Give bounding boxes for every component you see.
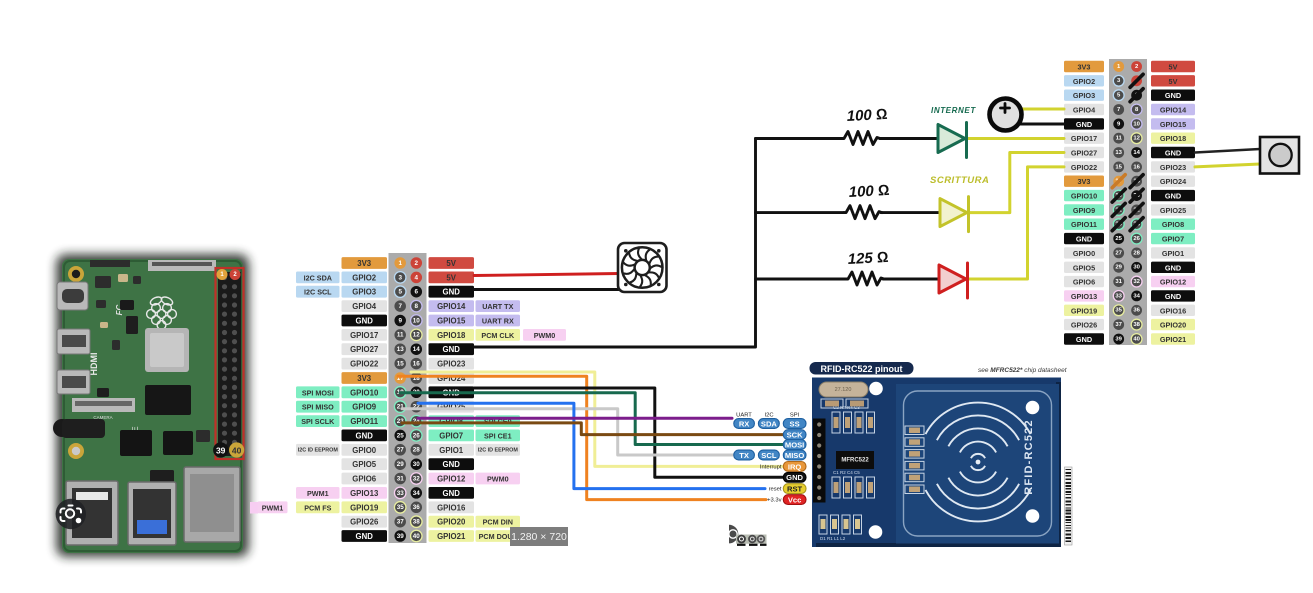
svg-text:GPIO22: GPIO22: [1071, 163, 1097, 172]
svg-text:MOSI: MOSI: [785, 440, 804, 449]
svg-text:UART: UART: [736, 413, 752, 419]
svg-text:GPIO7: GPIO7: [1162, 235, 1184, 244]
svg-text:GPIO17: GPIO17: [1071, 134, 1097, 143]
svg-text:9: 9: [398, 317, 402, 324]
svg-text:GPIO1: GPIO1: [439, 446, 463, 455]
svg-text:GND: GND: [1076, 120, 1092, 129]
svg-text:5V: 5V: [446, 259, 456, 268]
wire R3 to LED D3: [883, 278, 941, 281]
svg-text:10: 10: [1133, 121, 1140, 127]
svg-text:32: 32: [1133, 279, 1140, 285]
svg-text:37: 37: [397, 519, 405, 526]
svg-text:+3.3v: +3.3v: [767, 498, 781, 504]
svg-text:2: 2: [415, 260, 419, 267]
svg-text:14: 14: [413, 346, 421, 353]
wire orange 3V3 (pin17) to RFID Vcc: [398, 376, 766, 499]
wire purple GPIO8 CE0 to RFID SS: [418, 417, 732, 420]
wire black GND (pin20) to RFID GND: [474, 388, 784, 477]
svg-text:MFRC522: MFRC522: [841, 458, 869, 464]
svg-text:GPIO16: GPIO16: [437, 503, 466, 512]
svg-text:GPIO18: GPIO18: [1160, 134, 1186, 143]
svg-text:GPIO23: GPIO23: [437, 360, 466, 369]
LED D1 green (internet): [938, 123, 967, 158]
svg-text:28: 28: [413, 447, 421, 454]
svg-text:30: 30: [1133, 265, 1140, 271]
svg-text:SCL: SCL: [761, 451, 777, 460]
wire pale-yellow GPIO24 (pin18) to RFID IRQ: [411, 372, 786, 466]
svg-text:29: 29: [1115, 265, 1122, 271]
svg-text:GPIO15: GPIO15: [437, 317, 466, 326]
svg-text:GPIO3: GPIO3: [352, 288, 376, 297]
svg-text:GND: GND: [1165, 91, 1181, 100]
svg-text:PCM CLK: PCM CLK: [481, 331, 515, 340]
svg-text:11: 11: [1116, 136, 1123, 142]
svg-text:GND: GND: [443, 288, 461, 297]
svg-text:Vcc: Vcc: [788, 496, 802, 505]
svg-text:31: 31: [397, 475, 405, 482]
license watermark icons: [729, 525, 767, 546]
svg-text:GPIO24: GPIO24: [1160, 177, 1187, 186]
svg-text:125 Ω: 125 Ω: [847, 249, 889, 268]
svg-text:5: 5: [398, 289, 402, 296]
svg-text:15: 15: [1115, 164, 1122, 170]
svg-text:GPIO10: GPIO10: [350, 388, 379, 397]
svg-text:MISO: MISO: [785, 451, 805, 460]
wire yellow LED D3 to GPIO22: [968, 167, 1064, 279]
svg-text:GPIO2: GPIO2: [352, 273, 376, 282]
wire branch to resistor R3: [756, 278, 847, 281]
svg-text:GPIO9: GPIO9: [1073, 206, 1095, 215]
svg-text:16: 16: [413, 361, 421, 368]
svg-text:GPIO20: GPIO20: [1160, 321, 1186, 330]
svg-text:6: 6: [415, 289, 419, 296]
svg-text:GND: GND: [1165, 149, 1181, 158]
wire gray GPIO9 MISO to RFID MISO: [402, 409, 733, 455]
svg-text:GPIO23: GPIO23: [1160, 163, 1186, 172]
svg-text:25: 25: [1115, 236, 1122, 242]
svg-text:GPIO5: GPIO5: [1073, 263, 1095, 272]
wire blue GPIO25 to RFID RST: [418, 403, 765, 488]
svg-text:SS: SS: [790, 419, 800, 428]
resistor R2 100ohm: [844, 206, 882, 219]
svg-text:SCRITTURA: SCRITTURA: [930, 175, 989, 186]
svg-text:GPIO21: GPIO21: [1160, 335, 1186, 344]
svg-text:C1 R2 C4 C5: C1 R2 C4 C5: [833, 470, 860, 475]
svg-text:38: 38: [1133, 322, 1140, 328]
Raspberry Pi 4 board photo: [53, 254, 258, 557]
svg-text:GPIO2: GPIO2: [1073, 77, 1095, 86]
svg-text:GND: GND: [1165, 192, 1181, 201]
svg-text:3V3: 3V3: [357, 259, 372, 268]
svg-text:GPIO5: GPIO5: [352, 460, 376, 469]
svg-text:GPIO3: GPIO3: [1073, 91, 1095, 100]
svg-text:SPI MOSI: SPI MOSI: [302, 388, 334, 397]
svg-text:15: 15: [397, 361, 405, 368]
svg-text:GPIO14: GPIO14: [437, 302, 466, 311]
resistor R1 100ohm: [842, 132, 880, 145]
svg-text:1: 1: [398, 260, 402, 267]
svg-text:GPIO0: GPIO0: [352, 446, 376, 455]
svg-text:4: 4: [415, 274, 419, 281]
LED D2 yellow (scrittura): [940, 197, 969, 232]
svg-text:GPIO26: GPIO26: [1071, 321, 1097, 330]
svg-text:SDA: SDA: [761, 419, 778, 428]
fan (cooling fan symbol): [618, 243, 667, 292]
svg-text:GPIO27: GPIO27: [350, 345, 378, 354]
svg-text:I2C SDA: I2C SDA: [304, 273, 332, 282]
svg-text:GPIO7: GPIO7: [439, 431, 463, 440]
svg-text:27.120: 27.120: [835, 387, 852, 393]
svg-text:UART RX: UART RX: [482, 317, 514, 326]
svg-text:GND: GND: [443, 345, 461, 354]
svg-text:SCK: SCK: [787, 431, 804, 440]
svg-text:39: 39: [397, 533, 405, 540]
svg-text:GPIO9: GPIO9: [352, 403, 376, 412]
svg-text:3: 3: [398, 274, 402, 281]
svg-text:TX: TX: [739, 451, 749, 460]
wire yellow GPIO23 to push button: [1195, 164, 1260, 167]
svg-text:RX: RX: [739, 419, 750, 428]
svg-text:GND: GND: [1076, 235, 1092, 244]
svg-text:GPIO17: GPIO17: [350, 331, 378, 340]
svg-text:100 Ω: 100 Ω: [848, 182, 890, 201]
svg-text:GPIO14: GPIO14: [1160, 106, 1187, 115]
svg-text:GPIO13: GPIO13: [1071, 292, 1097, 301]
svg-text:5V: 5V: [446, 273, 456, 282]
wire black buzzer to GND: [1018, 123, 1064, 126]
svg-text:PWM1: PWM1: [307, 489, 329, 498]
wire yellow LED D1 to GPIO17: [967, 137, 1064, 140]
svg-text:27: 27: [1115, 250, 1122, 256]
svg-text:39: 39: [1115, 336, 1122, 342]
svg-text:30: 30: [413, 461, 421, 468]
resistor R3 125ohm: [846, 272, 884, 285]
svg-text:INTERNET: INTERNET: [931, 106, 976, 115]
image size badge 1.280x720: [510, 527, 568, 546]
svg-text:GPIO25: GPIO25: [1160, 206, 1186, 215]
svg-text:GND: GND: [443, 460, 461, 469]
svg-text:GPIO4: GPIO4: [1073, 106, 1096, 115]
RFID-RC522 module board: [812, 378, 1061, 548]
buzzer / piezo (circle with +): [990, 99, 1022, 131]
svg-text:Interrupt: Interrupt: [760, 464, 782, 470]
svg-text:GPIO15: GPIO15: [1160, 120, 1186, 129]
svg-text:I2C: I2C: [764, 413, 773, 419]
wire branch to resistor R1: [756, 137, 843, 140]
svg-text:GND: GND: [356, 317, 374, 326]
svg-text:28: 28: [1133, 250, 1140, 256]
svg-text:35: 35: [397, 504, 405, 511]
svg-text:7: 7: [398, 303, 402, 310]
svg-text:GPIO11: GPIO11: [350, 417, 378, 426]
svg-text:GND: GND: [1165, 292, 1181, 301]
svg-text:14: 14: [1133, 150, 1140, 156]
svg-text:12: 12: [413, 332, 421, 339]
svg-text:36: 36: [1133, 308, 1140, 314]
svg-text:RST: RST: [787, 485, 803, 494]
svg-text:37: 37: [1115, 322, 1122, 328]
svg-text:40: 40: [413, 533, 421, 540]
barcode sticker: [1065, 467, 1073, 545]
svg-text:GPIO8: GPIO8: [1162, 220, 1184, 229]
svg-text:100 Ω: 100 Ω: [846, 106, 888, 125]
svg-text:see MFRC522* chip datasheet: see MFRC522* chip datasheet: [978, 367, 1068, 374]
svg-text:GPIO18: GPIO18: [437, 331, 466, 340]
svg-text:11: 11: [397, 332, 404, 339]
LED D3 red: [939, 263, 968, 298]
svg-text:26: 26: [1133, 236, 1140, 242]
svg-text:GPIO6: GPIO6: [1073, 278, 1095, 287]
svg-text:GPIO0: GPIO0: [1073, 249, 1095, 258]
wire R1 to LED D1: [880, 137, 940, 140]
svg-text:GPIO10: GPIO10: [1071, 192, 1097, 201]
RFID pin labels (RX/SDA/SS etc.): [734, 419, 806, 505]
svg-text:38: 38: [413, 519, 421, 526]
svg-text:12: 12: [1133, 136, 1140, 142]
push button: [1260, 137, 1299, 174]
svg-text:PCM DIN: PCM DIN: [483, 518, 513, 527]
svg-text:33: 33: [1115, 293, 1122, 299]
svg-text:GND: GND: [443, 489, 461, 498]
svg-text:PWM1: PWM1: [262, 503, 284, 512]
svg-text:31: 31: [1115, 279, 1122, 285]
svg-text:13: 13: [397, 346, 405, 353]
svg-text:27: 27: [397, 447, 405, 454]
wire branch to resistor R2: [756, 211, 845, 214]
svg-text:GPIO22: GPIO22: [350, 360, 379, 369]
svg-text:GPIO19: GPIO19: [1071, 306, 1097, 315]
svg-text:GPIO21: GPIO21: [437, 532, 466, 541]
wire red 5V (pin4) to fan +: [474, 274, 619, 276]
svg-text:GPIO13: GPIO13: [350, 489, 379, 498]
svg-text:GND: GND: [786, 473, 803, 482]
wire black GND (pin14) bus to LED resistors: [474, 139, 756, 348]
svg-text:GND: GND: [356, 431, 374, 440]
svg-text:1.280 × 720: 1.280 × 720: [511, 531, 567, 543]
svg-text:40: 40: [232, 446, 242, 456]
svg-text:5V: 5V: [1169, 77, 1178, 86]
svg-text:RFID-RC522 pinout: RFID-RC522 pinout: [821, 364, 903, 374]
svg-text:GND: GND: [1165, 263, 1181, 272]
svg-text:GPIO19: GPIO19: [350, 503, 379, 512]
svg-text:PWM0: PWM0: [487, 475, 509, 484]
svg-text:I2C ID EEPROM: I2C ID EEPROM: [298, 447, 339, 453]
svg-text:13: 13: [1115, 150, 1122, 156]
svg-text:IRQ: IRQ: [788, 462, 802, 471]
svg-text:GPIO20: GPIO20: [437, 518, 466, 527]
wire R2 to LED D2: [881, 211, 942, 214]
wire brown GPIO11 SCLK to RFID SCK: [402, 423, 784, 435]
svg-text:reset: reset: [769, 487, 782, 493]
svg-text:GND: GND: [1076, 335, 1092, 344]
svg-text:GPIO12: GPIO12: [437, 475, 466, 484]
svg-text:PCM FS: PCM FS: [304, 503, 331, 512]
Raspberry Pi GPIO pinout table (small, top-right): [1064, 59, 1195, 345]
wire black GND to push button: [1195, 149, 1260, 153]
svg-text:29: 29: [397, 461, 405, 468]
svg-text:34: 34: [413, 490, 421, 497]
svg-text:SPI CE1: SPI CE1: [484, 431, 512, 440]
svg-text:26: 26: [413, 432, 421, 439]
svg-text:5V: 5V: [1169, 63, 1178, 72]
svg-text:PWM0: PWM0: [534, 331, 556, 340]
svg-text:UART TX: UART TX: [482, 302, 513, 311]
svg-text:HDMI: HDMI: [89, 353, 99, 376]
svg-text:36: 36: [413, 504, 421, 511]
svg-text:GPIO1: GPIO1: [1162, 249, 1184, 258]
svg-text:33: 33: [397, 490, 405, 497]
svg-text:GPIO16: GPIO16: [1160, 306, 1186, 315]
svg-text:8: 8: [415, 303, 419, 310]
svg-text:GPIO6: GPIO6: [352, 475, 376, 484]
hand-drawn strike marks over used pins 4,6,17-24: [1112, 74, 1143, 230]
svg-text:D1 R1 L1 L2: D1 R1 L1 L2: [820, 536, 846, 541]
svg-text:40: 40: [1133, 336, 1140, 342]
svg-text:RFID-RC522: RFID-RC522: [1023, 419, 1035, 495]
svg-text:3V3: 3V3: [1078, 177, 1091, 186]
svg-text:I2C ID EEPROM: I2C ID EEPROM: [478, 447, 519, 453]
svg-text:I2C SCL: I2C SCL: [304, 288, 332, 297]
svg-text:3V3: 3V3: [357, 374, 372, 383]
svg-text:SPI MISO: SPI MISO: [302, 403, 334, 412]
svg-text:GND: GND: [356, 532, 374, 541]
svg-text:39: 39: [216, 446, 226, 456]
svg-text:SPI: SPI: [790, 413, 800, 419]
svg-text:25: 25: [397, 432, 405, 439]
svg-text:32: 32: [413, 475, 421, 482]
svg-text:SPI SCLK: SPI SCLK: [301, 417, 335, 426]
wire black GND (pin6) to fan -: [474, 288, 622, 291]
svg-text:GPIO26: GPIO26: [350, 518, 379, 527]
Raspberry Pi 40-pin GPIO pinout table (large, center-left): [258, 253, 567, 543]
svg-text:GPIO4: GPIO4: [352, 302, 376, 311]
svg-text:35: 35: [1115, 308, 1122, 314]
svg-text:GPIO11: GPIO11: [1071, 220, 1097, 229]
svg-text:10: 10: [413, 317, 421, 324]
wire green GPIO10 MOSI to RFID MOSI: [400, 393, 784, 445]
svg-text:GPIO27: GPIO27: [1071, 149, 1097, 158]
wire yellow LED D2 to GPIO27: [969, 153, 1064, 213]
svg-text:16: 16: [1133, 164, 1140, 170]
svg-text:GPIO12: GPIO12: [1160, 278, 1186, 287]
RFID-RC522 pinout title banner: [810, 362, 914, 375]
wire yellow buzzer to GPIO4: [1018, 108, 1064, 111]
svg-text:34: 34: [1133, 293, 1140, 299]
svg-text:3V3: 3V3: [1078, 63, 1091, 72]
